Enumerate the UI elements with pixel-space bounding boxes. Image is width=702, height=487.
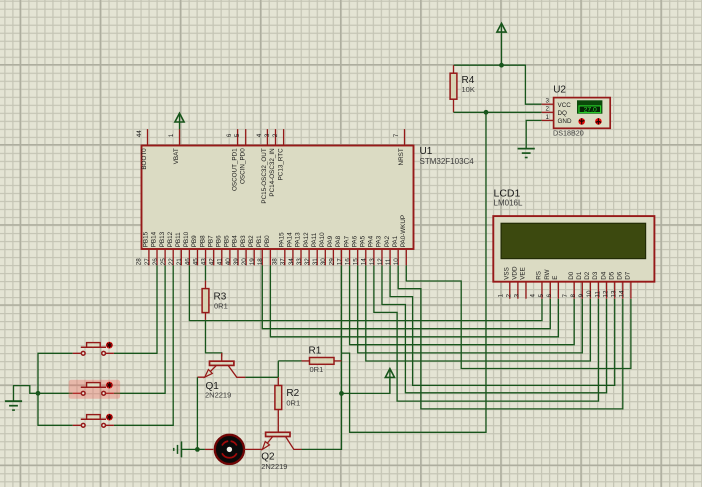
svg-text:PB15: PB15	[143, 231, 150, 247]
svg-text:46: 46	[184, 258, 191, 266]
motor	[215, 435, 244, 464]
U1 bottom pin 39 PB3	[245, 249, 247, 265]
push button 2 highlighted	[69, 380, 120, 399]
svg-text:30: 30	[320, 258, 327, 266]
svg-text:PC13_RTC: PC13_RTC	[277, 148, 284, 181]
wire U2 GND to ground	[526, 120, 541, 148]
resistor R4 10K	[453, 65, 455, 73]
svg-text:D1: D1	[576, 271, 583, 280]
U1 bottom pin 45 PB8	[205, 249, 207, 265]
svg-text:10: 10	[393, 258, 400, 266]
svg-text:PA4: PA4	[368, 235, 375, 247]
U1 top pin 1 VBAT	[179, 129, 181, 145]
svg-text:VEE: VEE	[520, 267, 527, 280]
U1 bottom pin 11 PA1	[397, 249, 399, 265]
svg-text:VCC: VCC	[558, 102, 572, 109]
svg-text:40: 40	[225, 258, 232, 266]
wire to power arrow mid	[342, 379, 390, 393]
button net left wiring	[38, 353, 73, 425]
svg-text:26: 26	[152, 258, 159, 266]
U1 bottom pin 25 PB12	[172, 249, 174, 265]
wire Q1 collector to R2 top	[245, 376, 278, 378]
svg-text:34: 34	[288, 258, 295, 266]
push button 1	[81, 346, 106, 348]
wire PB1 / RW net to LCD pin5	[262, 265, 550, 328]
wire PB10 / RS net to LCD pin4	[189, 265, 542, 320]
U1 bottom pin 22 PB11	[180, 249, 182, 265]
svg-text:12: 12	[602, 290, 609, 298]
svg-text:41: 41	[217, 258, 224, 266]
svg-text:10: 10	[586, 290, 593, 298]
svg-text:18: 18	[257, 258, 264, 266]
svg-text:17: 17	[336, 258, 343, 266]
U1 top pin 6 OSCOUT_PD1	[237, 129, 239, 145]
wire PA5 / D2 net to LCD pin9	[366, 265, 591, 361]
U1 bottom pin 29 PA8	[341, 249, 343, 265]
U1 top pin 2 PC13_RTC	[283, 129, 285, 145]
motor right terminal	[244, 448, 262, 450]
svg-text:PB10: PB10	[183, 231, 190, 247]
svg-text:7: 7	[562, 294, 569, 298]
svg-text:STM32F103C4: STM32F103C4	[420, 157, 475, 166]
LCD1 pin 6 E	[557, 282, 559, 299]
svg-text:39: 39	[233, 258, 240, 266]
svg-text:LCD1: LCD1	[494, 187, 521, 199]
svg-text:6: 6	[226, 133, 233, 137]
svg-text:0R1: 0R1	[286, 399, 300, 408]
svg-text:VBAT: VBAT	[173, 148, 180, 164]
U1 top pin 3 PC14-OSC32_IN	[275, 129, 277, 145]
svg-text:1: 1	[545, 114, 549, 121]
push button 3	[81, 418, 106, 420]
ground left	[5, 400, 22, 402]
wire PB0 / E net to LCD pin6	[270, 265, 558, 336]
LCD1 pin 7 D0	[573, 282, 575, 299]
svg-text:PB5: PB5	[224, 235, 231, 247]
svg-text:D3: D3	[592, 271, 599, 280]
U1 bottom pin 38 PA15	[284, 249, 286, 265]
wire to ground left	[14, 386, 39, 402]
svg-text:PA5: PA5	[360, 235, 367, 247]
svg-text:RW: RW	[544, 269, 551, 279]
svg-text:2: 2	[545, 106, 549, 113]
svg-text:BOOT0: BOOT0	[141, 148, 148, 170]
svg-text:GND: GND	[558, 118, 572, 125]
U1 bottom pin 28 PB15	[148, 249, 150, 265]
svg-text:D6: D6	[617, 271, 624, 280]
wire PA7 / D0 net to LCD pin7	[350, 265, 575, 344]
svg-text:PA7: PA7	[343, 235, 350, 247]
U2 up indicator	[595, 118, 602, 125]
svg-text:PB6: PB6	[216, 235, 223, 247]
U1 bottom pin 19 PB1	[261, 249, 263, 265]
svg-text:PA3: PA3	[376, 235, 383, 247]
Q1 emitter arrow	[205, 370, 213, 378]
svg-text:PB13: PB13	[159, 231, 166, 247]
svg-text:32: 32	[304, 258, 311, 266]
svg-text:3: 3	[514, 294, 521, 298]
svg-text:10K: 10K	[462, 85, 475, 94]
transistor Q1 base bar	[210, 361, 234, 365]
svg-text:27.0: 27.0	[584, 107, 597, 114]
U1 bottom pin 12 PA2	[389, 249, 391, 265]
svg-text:27: 27	[144, 258, 151, 266]
wire R4 to DQ pin	[454, 111, 542, 113]
U1 bottom pin 20 PB2	[253, 249, 255, 265]
svg-text:D4: D4	[600, 271, 607, 280]
svg-text:29: 29	[328, 258, 335, 266]
U1 bottom pin 32 PA11	[316, 249, 318, 265]
svg-text:PB1: PB1	[256, 235, 263, 247]
svg-text:14: 14	[619, 290, 626, 298]
svg-text:PA15: PA15	[279, 232, 286, 247]
wire PA6 / D1 net to LCD pin8	[358, 265, 583, 353]
svg-text:12: 12	[377, 258, 384, 266]
svg-text:PB2: PB2	[248, 235, 255, 247]
svg-text:2: 2	[506, 294, 513, 298]
U1 bottom pin 37 PA14	[292, 249, 294, 265]
U1 STM32F103C4 chip body	[142, 146, 414, 250]
svg-text:22: 22	[168, 258, 175, 266]
U1 bottom pin 17 PA7	[349, 249, 351, 265]
svg-text:PB7: PB7	[207, 235, 214, 247]
svg-text:0R1: 0R1	[310, 365, 324, 374]
wire PA0 / D7 net to LCD pin14	[406, 265, 631, 368]
svg-text:2N2219: 2N2219	[261, 462, 287, 471]
svg-text:19: 19	[249, 258, 256, 266]
wire PA1 / D6 net to LCD pin13	[398, 265, 623, 409]
svg-text:R1: R1	[309, 346, 322, 357]
U1 bottom pin 26 PB13	[164, 249, 166, 265]
junction button net	[36, 391, 41, 396]
svg-text:45: 45	[192, 258, 199, 266]
svg-text:2N2219: 2N2219	[205, 390, 231, 399]
svg-text:PB8: PB8	[199, 235, 206, 247]
U1 bottom pin 40 PB4	[237, 249, 239, 265]
resistor R2 0R1	[277, 377, 279, 385]
LCD1 pin 1 VSS	[509, 282, 511, 299]
svg-text:D2: D2	[584, 271, 591, 280]
svg-text:PB4: PB4	[232, 235, 239, 247]
U1 bottom pin 16 PA6	[357, 249, 359, 265]
svg-text:PB0: PB0	[264, 235, 271, 247]
U2 pin 3 VCC stub	[542, 103, 554, 105]
svg-text:PA11: PA11	[311, 232, 318, 247]
svg-text:VSS: VSS	[504, 267, 511, 280]
transistor Q2 base bar	[266, 432, 290, 436]
svg-text:PB3: PB3	[240, 235, 247, 247]
svg-text:13: 13	[369, 258, 376, 266]
svg-text:R2: R2	[286, 388, 299, 399]
svg-text:14: 14	[361, 258, 368, 266]
LCD1 pin 9 D2	[589, 282, 591, 299]
LCD1 pin 4 RS	[541, 282, 543, 299]
LCD1 pin 12 D5	[614, 282, 616, 299]
junction DQ	[484, 110, 489, 115]
U1 bottom pin 31 PA10	[324, 249, 326, 265]
svg-text:PA10: PA10	[319, 232, 326, 247]
power arrow mid	[385, 369, 394, 378]
svg-text:3: 3	[264, 133, 271, 137]
U1 bottom pin 15 PA5	[365, 249, 367, 265]
svg-text:U1: U1	[420, 146, 433, 157]
svg-text:PA6: PA6	[351, 235, 358, 247]
U1 bottom pin 42 PB6	[221, 249, 223, 265]
U1 top pin 5 OSCIN_PD0	[245, 129, 247, 145]
U1 top pin 44 BOOT0	[147, 129, 149, 145]
LCD1 pin 2 VDD	[517, 282, 519, 299]
LCD1 pin 11 D4	[606, 282, 608, 299]
motor left terminal	[205, 448, 213, 450]
wire Q1 emitter down to motor node	[196, 377, 198, 449]
Q2 emitter arrow	[262, 442, 269, 450]
svg-text:20: 20	[241, 258, 248, 266]
svg-text:D7: D7	[625, 271, 632, 280]
svg-text:DQ: DQ	[558, 110, 568, 117]
U1 bottom pin 34 PA13	[300, 249, 302, 265]
svg-text:PA12: PA12	[303, 232, 310, 247]
svg-text:D5: D5	[608, 271, 615, 280]
svg-text:6: 6	[546, 294, 553, 298]
wire PA2 / D5 net to LCD pin12	[390, 265, 615, 385]
wire R3 to Q1 base	[206, 321, 222, 357]
U1 bottom pin 14 PA4	[373, 249, 375, 265]
svg-text:31: 31	[312, 258, 319, 266]
svg-text:OSCOUT_PD1: OSCOUT_PD1	[231, 148, 238, 191]
svg-text:PA0-WKUP: PA0-WKUP	[400, 215, 407, 247]
svg-text:3: 3	[545, 98, 549, 105]
wire PB12 to button3	[114, 265, 173, 425]
Q1 collector	[228, 365, 245, 377]
U1 top pin 7 NRST	[404, 129, 406, 145]
svg-text:PB14: PB14	[151, 231, 158, 247]
svg-text:VDD: VDD	[512, 266, 519, 280]
U1 top pin 4 PC15-OSC32_OUT	[266, 129, 268, 145]
svg-text:38: 38	[272, 258, 279, 266]
junction VCC	[499, 63, 504, 68]
LCD1 pin 10 D3	[598, 282, 600, 299]
U1 bottom pin 13 PA3	[381, 249, 383, 265]
svg-text:PA14: PA14	[287, 232, 294, 247]
svg-text:Q2: Q2	[261, 452, 275, 463]
svg-text:4: 4	[530, 294, 537, 298]
svg-text:1: 1	[498, 294, 505, 298]
wire PA8 vertical to Q2 collector	[302, 265, 342, 449]
LCD1 pin 14 D7	[630, 282, 632, 299]
Q2 collector	[286, 437, 302, 450]
power arrow top right	[497, 23, 506, 32]
U1 bottom pin 10 PA0-WKUP	[405, 249, 407, 265]
U2 pin 2 DQ stub	[542, 111, 554, 113]
U1 bottom pin 46 PB9	[197, 249, 199, 265]
svg-text:25: 25	[160, 258, 167, 266]
resistor R1 0R1	[302, 360, 310, 362]
svg-text:D0: D0	[568, 271, 575, 280]
svg-text:OSCIN_PD0: OSCIN_PD0	[239, 148, 246, 184]
svg-text:0R1: 0R1	[214, 302, 228, 311]
LCD screen	[501, 223, 645, 258]
svg-text:28: 28	[136, 258, 143, 266]
U1 bottom pin 33 PA12	[308, 249, 310, 265]
button3 red stubs	[73, 424, 114, 426]
wire R1 left to R2 node	[278, 361, 301, 377]
wire PA3 / D4 net to LCD pin11	[382, 265, 607, 392]
svg-text:5: 5	[234, 133, 241, 137]
wire VCC node	[454, 65, 542, 104]
ground rotated at motor	[181, 441, 183, 457]
wire PB13 to button2	[114, 265, 165, 393]
svg-text:42: 42	[209, 258, 216, 266]
junction node PA8/VCC/Q2	[339, 391, 344, 396]
svg-text:PB11: PB11	[175, 232, 182, 247]
svg-text:DS18B20: DS18B20	[553, 129, 584, 138]
transistor Q2 2N2219 base lead	[277, 426, 279, 433]
LCD1 pin 3 VEE	[525, 282, 527, 299]
svg-text:7: 7	[393, 133, 400, 137]
LCD1 pin 5 RW	[549, 282, 551, 299]
svg-text:PB9: PB9	[191, 235, 198, 247]
svg-text:13: 13	[611, 290, 618, 298]
U1 bottom pin 30 PA9	[332, 249, 334, 265]
U1 bottom pin 18 PB0	[269, 249, 271, 265]
svg-text:8: 8	[570, 294, 577, 298]
LCD1 pin 8 D1	[581, 282, 583, 299]
wire PB14 to button1	[114, 265, 157, 353]
svg-text:PB12: PB12	[167, 231, 174, 247]
svg-text:37: 37	[280, 258, 287, 266]
svg-text:RS: RS	[536, 271, 543, 280]
wire PA4 / D3 net to LCD pin10	[374, 265, 599, 401]
svg-text:11: 11	[385, 258, 392, 265]
svg-text:21: 21	[176, 258, 183, 266]
svg-text:9: 9	[578, 294, 585, 298]
svg-text:16: 16	[345, 258, 352, 266]
U2 temperature display 27.0	[577, 100, 602, 113]
svg-text:PC14-OSC32_IN: PC14-OSC32_IN	[269, 148, 276, 197]
U2 pin 1 GND stub	[542, 119, 554, 121]
svg-text:PA8: PA8	[335, 235, 342, 247]
wire DQ net PA8 branch to DS18B20	[342, 112, 487, 432]
ground under U2	[518, 148, 535, 150]
svg-text:E: E	[552, 276, 559, 280]
svg-text:PA13: PA13	[295, 232, 302, 247]
U1 bottom pin 41 PB5	[229, 249, 231, 265]
svg-text:LM016L: LM016L	[494, 199, 523, 208]
Q1 emitter	[197, 365, 216, 377]
Q2 emitter	[262, 437, 272, 450]
svg-text:2: 2	[272, 133, 279, 137]
svg-text:4: 4	[256, 133, 263, 137]
power arrow VBAT	[175, 113, 184, 122]
U2 DS18B20 body	[554, 98, 611, 129]
svg-text:11: 11	[594, 290, 601, 297]
svg-text:PC15-OSC32_OUT: PC15-OSC32_OUT	[261, 148, 268, 203]
svg-text:15: 15	[353, 258, 360, 266]
junction motor node	[195, 447, 200, 452]
svg-text:PA1: PA1	[392, 235, 399, 247]
U1 bottom pin 43 PB7	[213, 249, 215, 265]
svg-text:U2: U2	[553, 85, 566, 96]
svg-text:5: 5	[538, 294, 545, 298]
svg-text:43: 43	[201, 258, 208, 266]
U2 down indicator	[578, 118, 585, 125]
svg-text:PA9: PA9	[327, 235, 334, 247]
svg-text:NRST: NRST	[398, 148, 405, 165]
svg-text:33: 33	[296, 258, 303, 266]
button1 red stubs	[73, 352, 114, 354]
wire PB8 to R3	[205, 265, 207, 280]
U1 bottom pin 27 PB14	[156, 249, 158, 265]
wire motor node	[182, 448, 205, 450]
LCD1 LM016L body	[493, 216, 654, 282]
resistor R3 0R1	[205, 281, 207, 289]
transistor Q1 2N2219 base lead	[221, 353, 223, 361]
U1 bottom pin 21 PB10	[188, 249, 190, 265]
svg-text:1: 1	[168, 133, 175, 137]
button2 red stubs	[73, 392, 114, 394]
svg-text:PA2: PA2	[384, 235, 391, 247]
svg-text:44: 44	[136, 130, 143, 138]
LCD1 pin 13 D6	[622, 282, 624, 299]
